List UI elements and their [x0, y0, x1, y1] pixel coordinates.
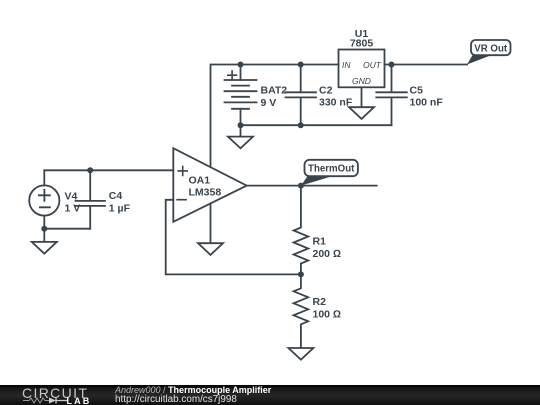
svg-text:C4: C4	[109, 190, 123, 202]
svg-text:IN: IN	[342, 60, 351, 70]
svg-text:C2: C2	[319, 85, 333, 97]
svg-text:ThermOut: ThermOut	[308, 164, 355, 175]
svg-text:BAT2: BAT2	[261, 85, 288, 97]
svg-text:R2: R2	[313, 296, 327, 308]
svg-text:V4: V4	[65, 191, 78, 203]
svg-text:9 V: 9 V	[261, 97, 277, 109]
svg-text:OA1: OA1	[189, 175, 211, 187]
svg-text:VR Out: VR Out	[474, 43, 508, 54]
svg-text:OUT: OUT	[363, 60, 382, 70]
svg-text:C5: C5	[410, 85, 424, 97]
svg-text:LM358: LM358	[189, 187, 222, 199]
svg-text:330 nF: 330 nF	[319, 97, 353, 109]
svg-text:100 nF: 100 nF	[410, 97, 444, 109]
svg-text:1 µF: 1 µF	[109, 203, 131, 215]
svg-text:200 Ω: 200 Ω	[313, 248, 342, 260]
svg-text:7805: 7805	[350, 38, 374, 50]
svg-text:1 V: 1 V	[65, 203, 81, 215]
svg-text:100 Ω: 100 Ω	[313, 309, 342, 321]
svg-text:GND: GND	[352, 76, 371, 86]
svg-text:R1: R1	[313, 236, 327, 248]
